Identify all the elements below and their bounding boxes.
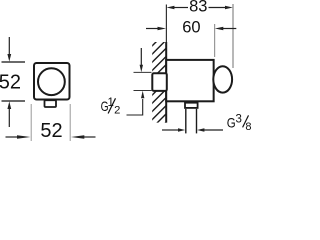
svg-text:3: 3 [236,113,242,125]
dim 83: left arrowhead and line [167,6,175,9]
dim 52 horizontal: right extension line [69,104,71,141]
dim 52 vertical: upper arrow (points down) [8,37,10,55]
front view: bottom outlet tab [45,100,57,107]
dim G3/8: right arrow (points left) with leader [204,129,223,131]
dim 83: left extension line (above wall) [165,5,167,43]
dim 52 horizontal: left arrow (points right) [6,136,18,138]
wall hatching [148,26,172,140]
svg-text:8: 8 [245,121,251,133]
dim 52 horizontal: left extension line [30,104,32,141]
svg-text:2: 2 [114,104,120,116]
side view: outlet pipe right edge [196,109,198,134]
svg-text:G: G [227,115,236,131]
dim 52 vertical: lower arrow (points up) [8,109,10,128]
side view: bottom nut [185,103,198,108]
side view: knob ellipse [213,66,232,92]
dim G1/2: upper arrow (points down) [140,48,142,65]
dim G3/8: left arrow (points right) [162,129,178,131]
svg-text:83: 83 [189,0,207,16]
label G1/2 [101,97,121,116]
dim 52 vertical: top extension line [2,61,26,63]
label G3/8 [227,113,252,133]
side view: valve body [166,60,213,101]
side view: outlet pipe left edge [185,109,187,134]
dim 52 horizontal: right arrow (points left) [84,136,96,138]
dim 60: left arrow (points right, outside) [146,28,159,30]
dim G1/2: upper extension line [134,71,152,73]
dim 52 vertical: bottom extension line [2,100,26,102]
dim 60: right arrow (points left, outside) [222,28,236,30]
dim 83: right line and arrowhead [209,7,226,9]
dim G1/2: lower extension line [134,90,152,92]
front view: valve body square [34,63,70,100]
svg-text:52: 52 [40,120,62,142]
dim 60: right extension line [214,24,216,57]
dim G1/2: leader with up arrow [127,99,143,115]
dim 83: right extension line [232,4,234,68]
side view: wall connector G1/2 fitting [152,73,167,91]
svg-text:60: 60 [182,19,200,37]
wall face line [165,42,167,123]
svg-text:52: 52 [0,72,21,94]
front view: handle circle [38,68,65,95]
